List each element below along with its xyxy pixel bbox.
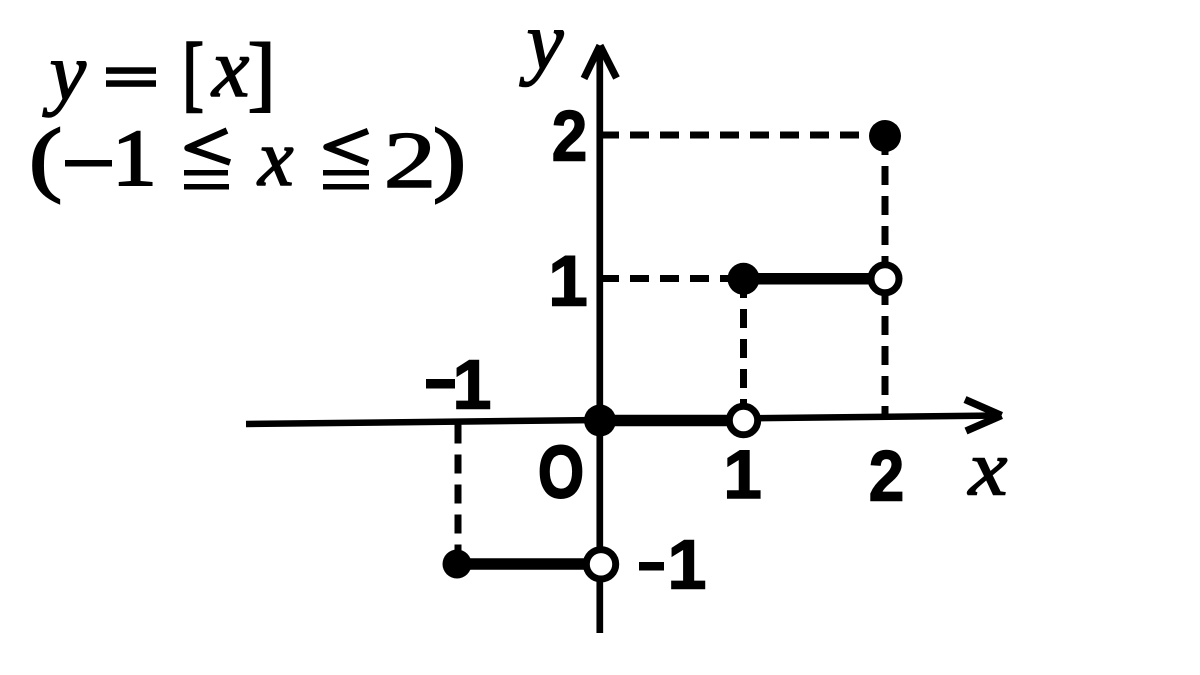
svg-text:O: O (538, 431, 584, 514)
step segment y=1 (744, 273, 886, 285)
dashed line x=2 (882, 136, 889, 416)
label -1 at x=-1 : dash (426, 379, 455, 389)
svg-text:2: 2 (552, 97, 588, 176)
filled dot (2,2) (869, 120, 901, 152)
svg-text:]: ] (248, 27, 276, 120)
leq symbol 2 (323, 131, 369, 187)
filled dot (0,0) (584, 405, 616, 437)
title line 2: (-1 <= x <= 2) (29, 111, 466, 205)
svg-text:): ) (433, 111, 466, 203)
svg-text:1: 1 (548, 243, 588, 322)
svg-text:y: y (43, 27, 87, 118)
svg-text:2: 2 (869, 437, 905, 516)
y-axis (596, 47, 603, 633)
svg-text:x: x (967, 425, 1008, 512)
dashed line x=-1 (455, 425, 462, 565)
open circle (1,0) (729, 406, 757, 434)
open circle (2,1) (871, 265, 899, 293)
leq symbol 1 (184, 131, 230, 187)
step segment y=-1 (457, 558, 601, 570)
filled dot (-1,-1) (443, 550, 472, 579)
svg-text:x: x (210, 22, 249, 115)
svg-text:(: ( (29, 111, 62, 203)
y-axis arrowhead (584, 46, 617, 79)
step segment y=0 (600, 415, 744, 427)
svg-text:1: 1 (668, 526, 707, 604)
svg-text:1: 1 (112, 114, 157, 203)
open circle (0,-1) (586, 550, 615, 579)
svg-text:[: [ (183, 28, 204, 120)
dashed line x=1 (740, 279, 747, 420)
svg-text:y: y (520, 0, 564, 87)
dashed line y=2 (600, 132, 885, 139)
filled dot (1,1) (728, 263, 760, 295)
svg-text:2: 2 (384, 115, 437, 205)
title line 1: y = [x] (43, 22, 276, 120)
svg-text:1: 1 (723, 436, 761, 513)
x-axis (246, 416, 1000, 425)
dashed line y=1 (600, 275, 744, 282)
svg-text:x: x (257, 115, 294, 203)
label -1 at y=-1 : dash (639, 562, 664, 571)
svg-text:1: 1 (453, 346, 492, 424)
x-axis arrowhead (965, 400, 1002, 432)
